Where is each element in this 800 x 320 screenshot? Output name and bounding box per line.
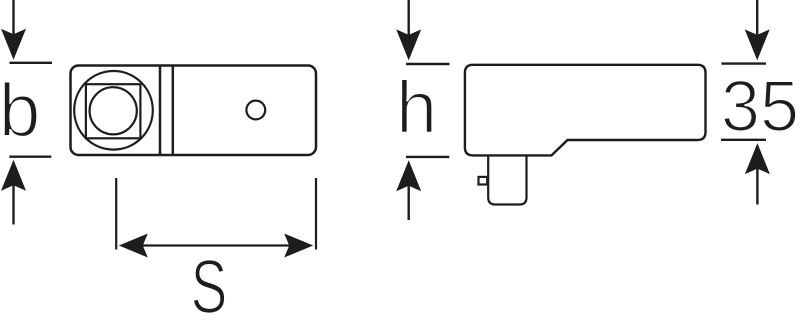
dimension h top tick: [406, 63, 450, 65]
dimension 35 top arrowhead: [745, 29, 770, 60]
dimension b top tick: [10, 62, 53, 64]
dimension S left arrowhead: [119, 234, 148, 258]
dimension S right arrowhead: [284, 234, 313, 258]
svg-text:b: b: [0, 68, 40, 152]
dimension S left extension line: [115, 178, 117, 250]
dimension S right extension line: [315, 178, 317, 250]
dimension 35 bottom arrow shaft: [756, 167, 758, 205]
dimension b bottom tick: [9, 155, 51, 157]
dimension h bottom arrowhead: [396, 160, 421, 191]
side view body outline: [465, 65, 706, 156]
dimension S arrow line: [142, 244, 290, 246]
detent pin: [479, 177, 488, 185]
dimension 35 top arrow shaft: [756, 0, 758, 36]
dimension b top arrowhead: [1, 29, 26, 60]
svg-text:35: 35: [721, 66, 799, 147]
square drive opening: [86, 84, 140, 138]
dimension 35 bottom arrowhead: [745, 143, 770, 174]
divider line 2: [172, 67, 175, 155]
divider line 1: [159, 67, 162, 155]
square drive stub: [488, 155, 526, 204]
inscribed circle of square drive: [90, 87, 137, 134]
dimension h top arrow shaft: [408, 0, 410, 37]
dimension h bottom arrow shaft: [408, 185, 410, 220]
dimension 35 top tick: [721, 62, 766, 64]
pin hole: [246, 101, 265, 120]
dimension h bottom tick: [406, 156, 449, 158]
dimension b bottom arrow shaft: [12, 184, 14, 225]
svg-text:h: h: [396, 66, 437, 149]
svg-text:S: S: [191, 245, 228, 320]
top view body outline: [71, 66, 317, 156]
dimension h top arrowhead: [396, 29, 421, 60]
dimension b top arrow shaft: [12, 0, 14, 36]
dimension b bottom arrowhead: [1, 160, 26, 191]
dimension 35 bottom tick: [721, 139, 766, 141]
drive boss outer circle: [74, 71, 153, 150]
